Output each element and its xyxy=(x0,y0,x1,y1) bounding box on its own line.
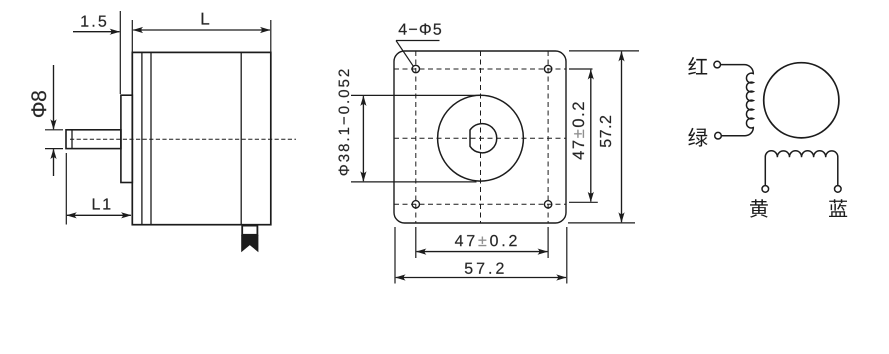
shaft circle with flat xyxy=(470,124,497,153)
shaft xyxy=(66,130,121,149)
phi8 top extension xyxy=(45,129,63,131)
dimension 1.5 extension line xyxy=(119,11,121,94)
bottom 47 dim left arrow xyxy=(417,251,483,253)
dimension 1.5 text xyxy=(81,16,106,27)
mounting hole top-right xyxy=(544,65,551,72)
right 47 text xyxy=(572,102,584,159)
phi38.1 bottom extension xyxy=(351,181,477,183)
label lan (blue) xyxy=(829,199,847,217)
right 57.2 text xyxy=(600,116,611,147)
dimension L right extension xyxy=(270,20,272,52)
mounting hole bottom-right xyxy=(544,201,551,208)
right 47 dim up arrow xyxy=(590,70,592,135)
bottom 47 dim left extension xyxy=(415,227,417,258)
dimension L line left arrow xyxy=(133,29,201,31)
mounting hole bottom-left xyxy=(412,201,419,208)
red terminal xyxy=(714,61,721,68)
bottom 47 text xyxy=(455,235,517,246)
bottom 57.2 left arrow xyxy=(396,277,481,279)
rotor circle xyxy=(764,63,839,138)
cable connector white part xyxy=(242,226,257,235)
phi38.1 dim up arrow xyxy=(362,96,364,135)
yellow terminal xyxy=(762,186,769,193)
dimension phi8 text xyxy=(31,91,46,117)
4-phi5 leader diagonal xyxy=(396,41,413,67)
dimension 1.5 line with arrow xyxy=(73,31,120,33)
bottom 57.2 left extension xyxy=(394,227,396,284)
bottom 57.2 text xyxy=(465,263,504,274)
pilot boss circle xyxy=(438,95,524,181)
bottom 47 dim right extension xyxy=(547,227,549,258)
motor body side view xyxy=(132,52,270,224)
right 57.2 down arrow xyxy=(621,135,623,222)
dimension L line right arrow xyxy=(202,29,270,31)
dimension L left extension xyxy=(131,20,133,52)
green terminal xyxy=(715,132,722,139)
phi8 down arrow xyxy=(53,65,55,129)
4-phi5 leader underline xyxy=(396,40,440,42)
bottom 57.2 right arrow xyxy=(481,277,566,279)
cable connector black flag xyxy=(241,235,258,252)
hole centerline horizontal bottom xyxy=(394,203,566,205)
phi38.1 text xyxy=(339,70,350,176)
right 57.2 up arrow xyxy=(621,52,623,135)
4-phi5 text xyxy=(399,24,441,35)
right 57.2 top extension xyxy=(569,50,639,52)
hole centerline vertical left xyxy=(415,51,417,223)
phi8 bottom extension xyxy=(45,148,63,150)
dimension L text xyxy=(202,13,209,25)
right 47 dim top extension xyxy=(569,68,593,70)
blue terminal xyxy=(835,186,842,193)
center crosshair horizontal xyxy=(394,137,566,139)
front endcap line 2 xyxy=(150,52,152,224)
front endcap line 1 xyxy=(141,52,143,224)
dimension L1 text xyxy=(93,198,111,209)
centerline xyxy=(70,138,296,140)
hole centerline horizontal top xyxy=(394,68,566,70)
bottom 57.2 right extension xyxy=(566,227,568,284)
front flange square xyxy=(394,51,566,223)
phi8 up arrow xyxy=(53,149,55,176)
center crosshair vertical xyxy=(480,51,482,223)
winding A (vertical coil) xyxy=(721,65,754,136)
dimension L1 extension xyxy=(65,153,67,225)
right 57.2 bottom extension xyxy=(568,222,635,224)
phi38.1 dim down arrow xyxy=(362,135,364,181)
mounting hole top-left xyxy=(412,65,419,72)
right 47 dim down arrow xyxy=(590,135,592,202)
label hong (red) xyxy=(688,57,707,75)
rear endcap line xyxy=(240,52,242,224)
dimension L1 left arrow xyxy=(67,214,98,216)
shaft chamfer xyxy=(71,130,73,149)
winding B (horizontal coil) xyxy=(765,151,838,186)
right 47 dim bottom extension xyxy=(569,201,598,203)
hole centerline vertical right xyxy=(547,51,549,223)
phi38.1 top extension xyxy=(351,94,481,96)
dimension L1 right arrow xyxy=(98,214,131,216)
pilot boss xyxy=(121,95,132,182)
label huang (yellow) xyxy=(750,199,768,217)
label lv (green) xyxy=(688,128,707,147)
bottom 47 dim right arrow xyxy=(482,251,547,253)
